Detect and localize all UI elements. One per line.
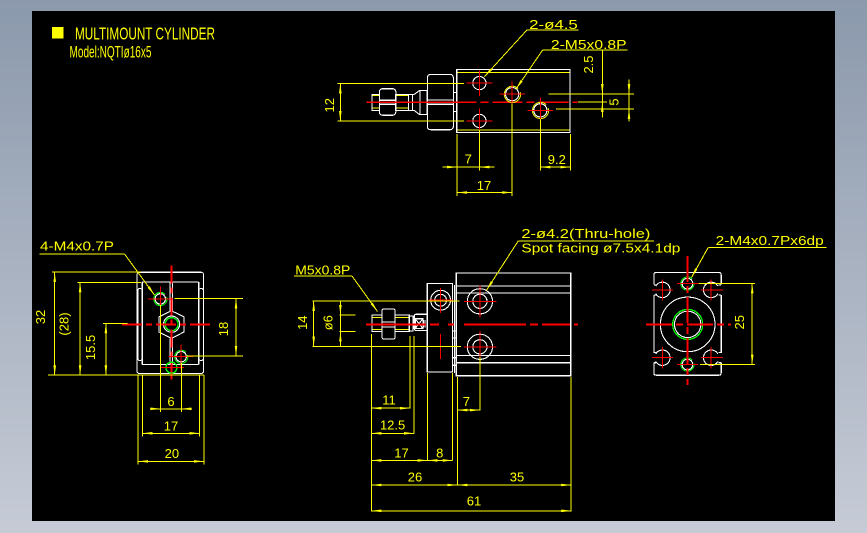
centerline [366, 323, 578, 325]
face outline [654, 273, 721, 376]
washer [408, 94, 412, 110]
dim 32 ext lines [52, 271, 141, 273]
svg-text:32: 32 [33, 310, 48, 324]
dim 12 [339, 84, 341, 122]
dim 12.5 [371, 432, 413, 434]
dim 25 ext lines [699, 282, 756, 284]
dim 18 ext lines [174, 298, 243, 300]
dim 5 [628, 79, 630, 121]
svg-text:12: 12 [322, 98, 337, 112]
svg-text:35: 35 [510, 470, 524, 485]
rod tip [372, 94, 379, 110]
dim 15.5 ext line [103, 322, 128, 324]
rod thread lines [373, 316, 382, 318]
svg-text:Model:NQTIø16x5: Model:NQTIø16x5 [70, 43, 152, 62]
body hole bottom [467, 334, 492, 359]
dim 7 ext lines [456, 134, 458, 196]
thread circle white [675, 311, 701, 337]
taper flare [413, 90, 427, 114]
dim 6 ext lines [160, 305, 162, 412]
svg-text:17: 17 [394, 446, 408, 461]
dim 18 [235, 299, 237, 356]
yellow legend square [52, 27, 64, 39]
collar inner lines [423, 320, 425, 328]
svg-text:7: 7 [463, 394, 470, 409]
mount plate (front view) [427, 283, 452, 372]
svg-text:2-ø4.2(Thru-hole): 2-ø4.2(Thru-hole) [521, 226, 650, 241]
dim 8 [428, 459, 453, 461]
bottom port circle [166, 362, 177, 373]
rod shaft [395, 315, 410, 332]
M4 hole top [682, 278, 693, 289]
hole M5 right [534, 104, 547, 117]
svg-text:M5x0.8P: M5x0.8P [295, 262, 350, 277]
svg-text:4-M4x0.7P: 4-M4x0.7P [40, 238, 114, 253]
rod tip [372, 315, 382, 332]
rod nut [379, 89, 395, 116]
svg-text:2-M4x0.7Px6dp: 2-M4x0.7Px6dp [716, 233, 824, 248]
svg-text:2.5: 2.5 [581, 55, 596, 73]
body outline (top view) [457, 70, 570, 133]
inner lines [142, 281, 199, 283]
rod hex [159, 311, 184, 339]
ext lines 14 [313, 300, 460, 302]
gap stubs [453, 92, 456, 94]
dim ø6 [339, 302, 341, 347]
dim 9.2 ext lines [539, 119, 541, 171]
svg-text:61: 61 [467, 494, 481, 509]
dim 2.5 ext lines [549, 93, 635, 95]
corner slot TR [704, 282, 718, 297]
hole M5 middle [506, 88, 519, 101]
M4 hole bottom [682, 359, 693, 370]
dim 17 [143, 432, 200, 434]
corner slot TL [656, 282, 670, 297]
dim 20 ext lines [137, 375, 139, 465]
svg-text:Spot facing ø7.5x4.1dp: Spot facing ø7.5x4.1dp [521, 241, 680, 256]
svg-text:8: 8 [436, 446, 443, 461]
corner slot BR [704, 350, 718, 365]
M4 hole top-left [155, 294, 165, 304]
svg-text:(28): (28) [56, 312, 71, 335]
dim 20 [138, 460, 204, 462]
svg-text:20: 20 [165, 446, 179, 461]
centerlines [687, 256, 689, 385]
vertical pair below hex [169, 338, 171, 364]
dim (28) [79, 282, 81, 375]
rod nut [382, 309, 395, 339]
svg-text:6: 6 [167, 394, 174, 409]
plate back edge [453, 285, 455, 373]
body groove lines [457, 71, 569, 73]
hole 4.5 top-left [473, 77, 486, 90]
dim 2.5 [601, 50, 603, 117]
dim ø6 ext lines [340, 314, 356, 316]
hole 4.5 bottom-left [473, 114, 486, 127]
bore circle [660, 297, 715, 352]
svg-text:17: 17 [477, 178, 491, 193]
body hole top [467, 289, 492, 314]
dim 26 [371, 484, 457, 486]
dim 17 [371, 459, 427, 461]
vertical pair above hex [169, 282, 171, 311]
plate hole bottom centermark [440, 334, 442, 359]
dim 6 [161, 408, 182, 410]
dim 35 [457, 484, 571, 486]
groove notches [453, 331, 457, 338]
thread circle green [673, 309, 703, 339]
dim 17 ext lines [142, 375, 144, 437]
svg-text:14: 14 [295, 315, 310, 329]
svg-text:ø6: ø6 [321, 315, 336, 330]
rod thread lines [373, 95, 380, 97]
M4 hole bottom-right [176, 352, 186, 362]
svg-text:25: 25 [732, 315, 747, 329]
dim 61 [371, 510, 571, 512]
svg-text:12.5: 12.5 [380, 418, 405, 433]
body outline (front view) [456, 273, 571, 376]
body outer outline [137, 272, 204, 373]
corner slot BL [656, 350, 670, 365]
bottom ext lines [370, 334, 372, 512]
rod shaft [396, 94, 409, 110]
svg-text:5: 5 [607, 98, 622, 105]
flare junction line [419, 90, 421, 114]
svg-text:MULTIMOUNT CYLINDER: MULTIMOUNT CYLINDER [75, 23, 215, 43]
dim 7 [457, 409, 480, 411]
dim 12 ext lines [338, 83, 465, 85]
dim 32 [54, 272, 56, 375]
dim (28) ext line [78, 281, 142, 283]
svg-text:26: 26 [408, 470, 422, 485]
centerlines [122, 323, 210, 325]
washer [409, 316, 413, 331]
body groove lines [456, 285, 571, 287]
svg-text:17: 17 [164, 419, 178, 434]
dim 15.5 [105, 323, 107, 375]
rod thread circle [165, 318, 178, 331]
right slot [199, 289, 204, 361]
dim 25 [751, 283, 753, 364]
svg-text:11: 11 [382, 393, 396, 408]
dim 14 [313, 301, 315, 346]
plate hole top [431, 290, 451, 310]
dim 17 [457, 192, 512, 194]
svg-text:15.5: 15.5 [83, 335, 98, 360]
left slot [138, 289, 143, 361]
centerline [367, 101, 578, 103]
svg-text:7: 7 [465, 152, 472, 167]
rod circle [164, 316, 180, 332]
dim 11 [371, 407, 409, 409]
wrench flat box with X [415, 319, 423, 329]
dim 17 ext line [511, 104, 513, 197]
dim 9.2 [540, 166, 570, 168]
rod collar [414, 314, 427, 330]
dim 7 [457, 166, 479, 168]
title block [52, 23, 215, 61]
svg-text:9.2: 9.2 [548, 152, 566, 167]
svg-text:18: 18 [216, 322, 231, 336]
mount plate (top view) [427, 74, 453, 129]
